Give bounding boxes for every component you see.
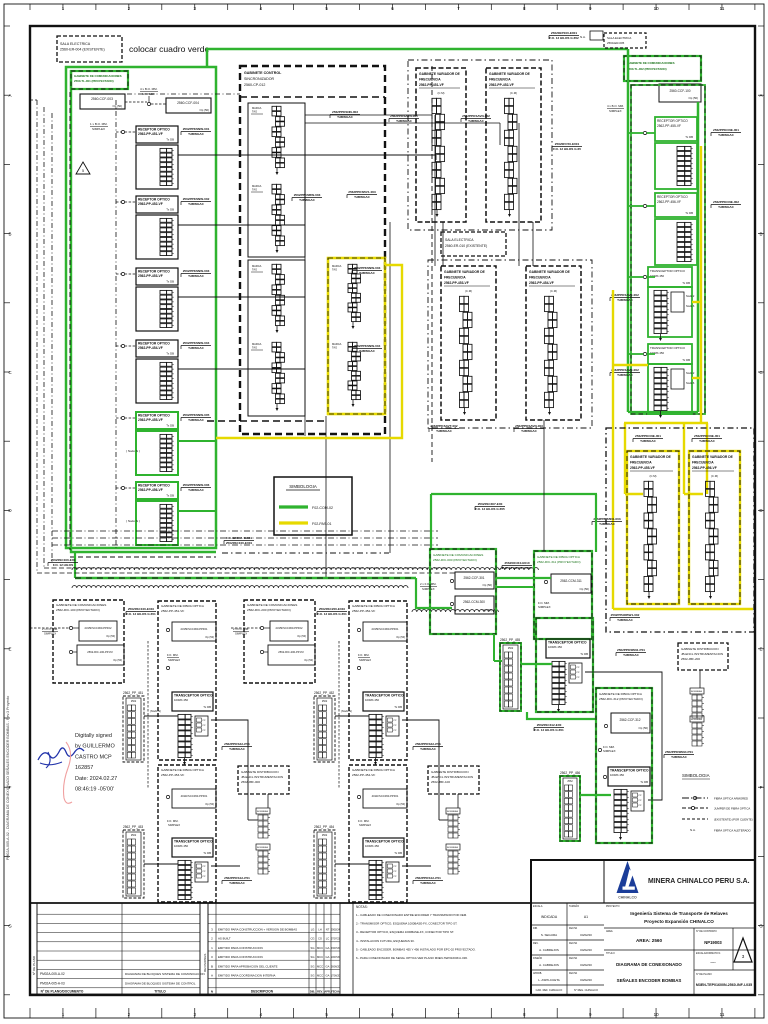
svg-text:3: 3 [742, 954, 745, 959]
svg-text:GABINETE DE COMUNICACIONES: GABINETE DE COMUNICACIONES [74, 74, 122, 78]
svg-text:DIAGRAMA DE CONEXIONADO: DIAGRAMA DE CONEXIONADO [616, 962, 682, 967]
svg-text:PM02A-005-A-02: PM02A-005-A-02 [40, 972, 65, 976]
svg-text:MCC: MCC [317, 974, 323, 978]
svg-text:SALA ELECTRICA: SALA ELECTRICA [60, 42, 91, 46]
svg-text:FRECUENCIA: FRECUENCIA [419, 78, 441, 82]
svg-text:2562-RIC-100 (PROYECTADO): 2562-RIC-100 (PROYECTADO) [56, 608, 100, 612]
svg-text:SG: SG [311, 964, 315, 968]
svg-text:Op (50): Op (50) [304, 658, 313, 662]
svg-text:2562PPKSBW-003: 2562PPKSBW-003 [294, 193, 321, 197]
svg-text:5: 5 [82, 169, 84, 173]
svg-text:2562: 2562 [322, 700, 328, 703]
svg-text:Nodo 2: Nodo 2 [686, 371, 695, 375]
svg-text:F: F [760, 785, 763, 790]
svg-text:DIAGRAMA DE BLOQUES SISTEMA DE: DIAGRAMA DE BLOQUES SISTEMA DE CONTROL [125, 982, 196, 986]
svg-text:N: N [211, 990, 213, 994]
svg-text:M3EN-TEP01600N-2560-INF-I-035: M3EN-TEP01600N-2560-INF-I-035 [696, 983, 752, 987]
svg-text:Nodo 2: Nodo 2 [686, 294, 695, 298]
svg-text:----: ---- [710, 959, 716, 964]
svg-text:N.A.: N.A. [690, 828, 696, 832]
svg-text:N° DE CONTRATO:: N° DE CONTRATO: [696, 930, 718, 933]
svg-text:TdBWGAC: TdBWGAC [521, 429, 538, 433]
svg-text:(C.M): (C.M) [438, 91, 445, 95]
svg-text:10/07/20: 10/07/20 [331, 957, 341, 959]
svg-text:GA: GA [326, 974, 330, 978]
svg-text:LC: LC [326, 937, 329, 941]
svg-text:RECEPTOR OPTICO: RECEPTOR OPTICO [657, 195, 688, 199]
svg-text:2315FSCC060-PPF02: 2315FSCC060-PPF02 [276, 626, 303, 630]
svg-text:26/06/20: 26/06/20 [331, 966, 341, 968]
svg-text:25620IC310-E010: 25620IC310-E010 [504, 561, 529, 565]
svg-text:MCC: MCC [317, 964, 323, 968]
svg-text:TdBWGAC: TdBWGAC [188, 132, 205, 136]
svg-text:E: E [8, 647, 11, 652]
svg-text:GABINETE DISTRIBUCION: GABINETE DISTRIBUCION [681, 647, 719, 651]
svg-text:F.O. 12 HILOS G.651: F.O. 12 HILOS G.651 [126, 612, 156, 616]
svg-text:FECHA: FECHA [331, 991, 340, 994]
svg-text:SALA ELECTRICA: SALA ELECTRICA [607, 36, 631, 40]
svg-text:GABINETE CONTROL: GABINETE CONTROL [244, 71, 282, 75]
svg-text:2562-RIC-200-PP-P2: 2562-RIC-200-PP-P2 [278, 650, 304, 654]
svg-text:GABINETE DE FIBRA OPTICA: GABINETE DE FIBRA OPTICA [161, 768, 205, 772]
svg-text:25620EP100-E001: 25620EP100-E001 [551, 31, 577, 35]
svg-text:FECHA: FECHA [569, 927, 578, 930]
svg-text:2562-PP-454-VF: 2562-PP-454-VF [352, 773, 375, 777]
svg-text:100Mb 450: 100Mb 450 [548, 645, 562, 649]
svg-text:2562-JBF-200: 2562-JBF-200 [681, 657, 700, 661]
svg-text:RECEPTOR OPTICO: RECEPTOR OPTICO [138, 128, 170, 132]
svg-text:B: B [8, 231, 11, 236]
svg-text:GA: GA [326, 946, 330, 950]
svg-text:F.O. 12 HILOS G.651: F.O. 12 HILOS G.651 [502, 566, 532, 570]
svg-text:TRANSCEPTOR OPTICO: TRANSCEPTOR OPTICO [650, 346, 686, 350]
svg-text:Op (50): Op (50) [200, 108, 210, 112]
svg-text:GABINETE DE COMUNICACIONES: GABINETE DE COMUNICACIONES [56, 603, 106, 607]
svg-text:S. SEGURA: S. SEGURA [541, 933, 557, 937]
svg-text:BORNERA: BORNERA [447, 810, 458, 813]
svg-text:2562-PP-452-VF: 2562-PP-452-VF [352, 609, 375, 613]
svg-text:2562-PP-454-VF: 2562-PP-454-VF [138, 346, 163, 350]
svg-text:2562: 2562 [508, 647, 514, 650]
svg-text:Tx DB: Tx DB [166, 424, 174, 428]
svg-text:GABINETE DE COMUNICACIONES: GABINETE DE COMUNICACIONES [247, 603, 297, 607]
svg-text:25620SC200-E010: 25620SC200-E010 [319, 607, 346, 611]
svg-text:FECHA: FECHA [569, 972, 578, 975]
svg-text:TdBWGAC: TdBWGAC [699, 439, 716, 443]
svg-text:SIMBOLOGIA: SIMBOLOGIA [289, 484, 317, 489]
svg-text:AREA:: AREA: [606, 930, 614, 933]
svg-text:TdBWGAC: TdBWGAC [718, 205, 735, 209]
svg-text:Op (50): Op (50) [689, 96, 699, 100]
svg-text:ESCALA/FORMATO N.: ESCALA/FORMATO N. [696, 952, 721, 955]
svg-text:GABINETE DISTRIBUCION: GABINETE DISTRIBUCION [241, 770, 279, 774]
svg-text:TdBWGAC: TdBWGAC [337, 115, 354, 119]
svg-text:2562-PP-451-VF: 2562-PP-451-VF [161, 609, 184, 613]
svg-text:2562PPKS4A-P01: 2562PPKS4A-P01 [415, 876, 441, 880]
svg-text:INDICADA: INDICADA [541, 915, 558, 919]
svg-text:SIMPLEX: SIMPLEX [92, 127, 105, 131]
svg-text:2562PPHOBW1-002: 2562PPHOBW1-002 [611, 613, 640, 617]
svg-text:TdBWGAC: TdBWGAC [396, 119, 413, 123]
svg-text:TAG: TAG [332, 346, 337, 350]
svg-text:4 x B.O. MM.: 4 x B.O. MM. [607, 104, 624, 108]
svg-text:2562_PP_452: 2562_PP_452 [314, 691, 334, 695]
svg-text:PM02A-005-A-03: PM02A-005-A-03 [40, 982, 65, 986]
svg-text:SIMPLEX: SIMPLEX [603, 749, 616, 753]
svg-text:2562PPKSAVN-003: 2562PPKSAVN-003 [515, 424, 543, 428]
svg-text:04/02/20: 04/02/20 [580, 963, 592, 967]
svg-text:Tx DB: Tx DB [640, 780, 648, 784]
svg-text:JB-ENCL INSTRUMENTACION: JB-ENCL INSTRUMENTACION [431, 775, 473, 779]
svg-text:AS BUILT: AS BUILT [218, 937, 231, 941]
svg-text:MCC: MCC [317, 946, 323, 950]
svg-text:BORNERA: BORNERA [691, 690, 702, 693]
svg-text:GABINETE VARIADOR DE: GABINETE VARIADOR DE [419, 72, 461, 76]
svg-text:APROB.: APROB. [533, 972, 542, 975]
svg-text:2560-TL-001 (PROYECTADO): 2560-TL-001 (PROYECTADO) [74, 79, 114, 83]
svg-text:TAG: TAG [252, 268, 257, 272]
svg-text:GA: GA [326, 955, 330, 959]
svg-text:27/07/23: 27/07/23 [331, 939, 341, 941]
svg-text:FRECUENCIA: FRECUENCIA [489, 78, 511, 82]
svg-text:GABINETE VARIADOR DE: GABINETE VARIADOR DE [444, 270, 486, 274]
svg-text:SG: SG [311, 955, 315, 959]
svg-text:2560-CCF-003: 2560-CCF-003 [91, 97, 113, 101]
svg-text:GA: GA [326, 964, 330, 968]
svg-text:F.O. MM.: F.O. MM. [167, 653, 179, 657]
svg-text:SG: SG [311, 946, 315, 950]
svg-text:MARCA: MARCA [252, 264, 262, 268]
svg-text:RECEPTOR OPTICO: RECEPTOR OPTICO [657, 119, 688, 123]
svg-text:2562_PP_455: 2562_PP_455 [500, 638, 520, 642]
svg-text:2562_PP_456: 2562_PP_456 [560, 771, 580, 775]
svg-text:2562PPKCNE-002: 2562PPKCNE-002 [713, 200, 739, 204]
svg-text:Op (50): Op (50) [483, 608, 493, 612]
svg-text:Tx DB: Tx DB [203, 705, 211, 709]
svg-text:2562PPKSAVE-002: 2562PPKSAVE-002 [611, 293, 639, 297]
svg-text:GABINETE DE FIBRA OPTICA: GABINETE DE FIBRA OPTICA [352, 768, 396, 772]
svg-text:EMITIDO PARA COORDINACION INTE: EMITIDO PARA COORDINACION INTERNA [218, 974, 276, 978]
svg-text:GABINETE DE COMUNICACIONES: GABINETE DE COMUNICACIONES [627, 61, 675, 65]
svg-text:TRANSCEPTOR OPTICO: TRANSCEPTOR OPTICO [610, 769, 649, 773]
svg-text:Op (50): Op (50) [106, 634, 115, 638]
svg-text:2562-RIC-000 (PROYECTADO): 2562-RIC-000 (PROYECTADO) [433, 558, 477, 562]
svg-text:2562PPKCNE-001: 2562PPKCNE-001 [713, 128, 739, 132]
svg-text:04/02/20: 04/02/20 [580, 948, 592, 952]
svg-text:4011FSCC060-PPF01: 4011FSCC060-PPF01 [181, 794, 208, 798]
svg-text:2562: 2562 [322, 834, 328, 837]
svg-text:2562PPKCNE-001: 2562PPKCNE-001 [694, 434, 720, 438]
svg-text:BORNERA: BORNERA [257, 810, 268, 813]
svg-text:(C.M): (C.M) [711, 474, 718, 478]
svg-text:TdBWGAC: TdBWGAC [229, 747, 246, 751]
svg-text:TdBWGAC: TdBWGAC [436, 429, 453, 433]
svg-text:2562PPKSNW-004: 2562PPKSNW-004 [354, 344, 381, 348]
svg-text:162857: 162857 [75, 765, 93, 771]
svg-text:APR.: APR. [324, 990, 330, 994]
svg-text:2562_PP_453: 2562_PP_453 [123, 825, 143, 829]
svg-text:TdBWGAC: TdBWGAC [671, 755, 688, 759]
svg-text:Op (50): Op (50) [580, 587, 590, 591]
svg-text:4.- INSTALACION FUTURA, ESQUE: 4.- INSTALACION FUTURA, ESQUEMAS 30. [356, 939, 415, 943]
svg-text:Op (50): Op (50) [297, 634, 306, 638]
svg-text:100Mb 450: 100Mb 450 [174, 698, 188, 702]
svg-text:2562PPKS3A-P01: 2562PPKS3A-P01 [224, 742, 250, 746]
svg-text:SINCRONIZADOR: SINCRONIZADOR [244, 77, 275, 81]
svg-text:2562-PP-453-VF: 2562-PP-453-VF [444, 281, 469, 285]
svg-text:TRANSCEPTOR OPTICO: TRANSCEPTOR OPTICO [174, 840, 213, 844]
svg-text:(EXISTENTE) (POR CLIENTE): (EXISTENTE) (POR CLIENTE) [714, 818, 753, 822]
svg-text:2562PPKS4A-P01: 2562PPKS4A-P01 [224, 876, 250, 880]
svg-text:Tx DB: Tx DB [394, 705, 402, 709]
svg-text:MARCA: MARCA [252, 342, 262, 346]
svg-text:11: 11 [720, 1012, 725, 1017]
svg-text:Tx DB: Tx DB [166, 352, 174, 356]
svg-text:F02-COM-02: F02-COM-02 [312, 506, 333, 510]
svg-text:N° REG. CHINALCO: N° REG. CHINALCO [574, 988, 598, 992]
svg-text:2560-ER-005: 2560-ER-005 [607, 41, 625, 45]
svg-text:EMITIDO PARA CONSTRUCCION: EMITIDO PARA CONSTRUCCION [218, 955, 263, 959]
svg-text:2562PPKSAVN-001: 2562PPKSAVN-001 [390, 114, 418, 118]
svg-text:2562PPKSAVE-002: 2562PPKSAVE-002 [611, 368, 639, 372]
svg-text:ESCALA: ESCALA [533, 905, 543, 908]
svg-text:2562-RIC-311 (PROYECTADO): 2562-RIC-311 (PROYECTADO) [537, 560, 581, 564]
svg-text:REV.: REV. [317, 990, 323, 994]
svg-text:2562-PP-453-VF: 2562-PP-453-VF [161, 773, 184, 777]
svg-text:Op (50): Op (50) [483, 583, 493, 587]
svg-text:GABINETE DE FIBRA OPTICA: GABINETE DE FIBRA OPTICA [599, 692, 643, 696]
svg-text:FRECUENCIA: FRECUENCIA [692, 461, 714, 465]
svg-text:BORNERA: BORNERA [691, 718, 702, 721]
svg-text:10: 10 [654, 1012, 660, 1017]
svg-text:2560-TL-002 (PROYECTADO): 2560-TL-002 (PROYECTADO) [627, 67, 667, 71]
svg-text:JB-ENCL INSTRUMENTACION: JB-ENCL INSTRUMENTACION [241, 775, 283, 779]
svg-text:RECEPTOR OPTICO: RECEPTOR OPTICO [138, 270, 170, 274]
svg-text:E: E [759, 647, 762, 652]
svg-text:DESCRIPCION: DESCRIPCION [251, 990, 274, 994]
svg-text:SIMPLEX: SIMPLEX [609, 109, 622, 113]
svg-text:CG: CG [310, 937, 314, 941]
svg-text:TRANSCEPTOR OPTICO: TRANSCEPTOR OPTICO [365, 694, 404, 698]
svg-text:TRANSCEPTOR OPTICO: TRANSCEPTOR OPTICO [650, 269, 686, 273]
svg-text:Tx DB: Tx DB [203, 851, 211, 855]
svg-text:PM02A-005-A-02 - DIAGRAMA DE: PM02A-005-A-02 - DIAGRAMA DE CONEXIONADO… [5, 696, 10, 860]
svg-text:CG: CG [318, 937, 322, 941]
svg-text:F02-PAS-01: F02-PAS-01 [312, 522, 332, 526]
svg-text:2562-JBF-100: 2562-JBF-100 [431, 780, 450, 784]
svg-text:MARCA: MARCA [252, 106, 262, 110]
svg-text:TAG: TAG [252, 188, 257, 192]
svg-text:AREA: 2560: AREA: 2560 [636, 938, 662, 943]
svg-text:MARCA: MARCA [252, 184, 262, 188]
svg-text:N° DE PLANO:: N° DE PLANO: [696, 973, 712, 976]
svg-text:TdBWGAC: TdBWGAC [623, 653, 640, 657]
svg-text:2562-PP-456-VF: 2562-PP-456-VF [138, 488, 163, 492]
svg-text:N° DE PLANO/DOCUMENTO: N° DE PLANO/DOCUMENTO [41, 990, 84, 994]
svg-text:TdBWGAC: TdBWGAC [188, 202, 205, 206]
svg-text:TdBWGAC: TdBWGAC [188, 488, 205, 492]
svg-text:REV.: REV. [533, 942, 539, 945]
svg-text:2562-JBF-000: 2562-JBF-000 [241, 780, 260, 784]
svg-text:04/02/20: 04/02/20 [580, 933, 592, 937]
svg-text:TAG: TAG [252, 346, 257, 350]
svg-text:MINERA CHINALCO PERU S.A.: MINERA CHINALCO PERU S.A. [648, 878, 750, 885]
svg-text:TdBWGAC: TdBWGAC [420, 881, 437, 885]
svg-text:2562-CCM-300: 2562-CCM-300 [463, 600, 485, 604]
svg-text:A: A [8, 93, 11, 98]
svg-text:4 x B.O. MM.: 4 x B.O. MM. [140, 87, 158, 91]
svg-text:2562PPKSNW-002: 2562PPKSNW-002 [183, 197, 210, 201]
svg-text:CAD. REF. CHINALCO: CAD. REF. CHINALCO [536, 988, 563, 992]
svg-text:FRECUENCIA: FRECUENCIA [529, 276, 551, 280]
svg-text:2 x F.O. MM.: 2 x F.O. MM. [233, 627, 249, 631]
svg-text:Tx DB: Tx DB [394, 851, 402, 855]
svg-text:LG: LG [311, 928, 315, 932]
svg-text:MARCA: MARCA [332, 264, 342, 268]
svg-text:2562-PP-456-VF: 2562-PP-456-VF [692, 466, 717, 470]
svg-text:2315FSCC060-PPF01: 2315FSCC060-PPF01 [372, 627, 399, 631]
svg-text:2562PPKSNN-003: 2562PPKSNN-003 [332, 110, 358, 114]
svg-text:JUMPER DE FIBRA OPTICA: JUMPER DE FIBRA OPTICA [714, 807, 750, 811]
svg-text:2562-PP-451-VF: 2562-PP-451-VF [419, 83, 444, 87]
svg-text:2.- TRANSMISOR OPTICO, ESQUEM: 2.- TRANSMISOR OPTICO, ESQUEMA 1000BASE-… [356, 922, 458, 926]
svg-text:GABINETE DE COMUNICACIONES: GABINETE DE COMUNICACIONES [433, 553, 483, 557]
svg-text:Op (50): Op (50) [396, 635, 405, 639]
svg-text:TdBWGAC: TdBWGAC [718, 133, 735, 137]
svg-text:TRANSCEPTOR OPTICO: TRANSCEPTOR OPTICO [174, 694, 213, 698]
svg-text:Tx DB: Tx DB [682, 281, 690, 285]
svg-text:2562-PP-455-VF: 2562-PP-455-VF [657, 124, 681, 128]
svg-text:FRECUENCIA: FRECUENCIA [444, 276, 466, 280]
svg-text:CHINALCO: CHINALCO [618, 896, 637, 900]
svg-text:SIMPLEX: SIMPLEX [168, 823, 180, 827]
svg-text:RECEPTOR OPTICO: RECEPTOR OPTICO [138, 484, 170, 488]
svg-text:TdBWGAC: TdBWGAC [617, 618, 634, 622]
svg-text:2562-RIC-200 (PROYECTADO): 2562-RIC-200 (PROYECTADO) [247, 608, 291, 612]
svg-text:2562: 2562 [567, 780, 573, 783]
svg-text:TITULO:: TITULO: [606, 952, 616, 955]
svg-text:RECEPTOR OPTICO: RECEPTOR OPTICO [138, 414, 170, 418]
svg-text:2562-PP-452-VF: 2562-PP-452-VF [489, 83, 514, 87]
svg-text:Digitally signed: Digitally signed [75, 733, 112, 739]
svg-text:F.O. 12 HILOS G.65: F.O. 12 HILOS G.65 [553, 147, 581, 151]
svg-text:DIB.: DIB. [310, 990, 315, 994]
svg-text:Tx DB: Tx DB [580, 652, 588, 656]
svg-text:1.- CABLEADO DE CONEXIONADO E: 1.- CABLEADO DE CONEXIONADO ENTRE ENCODE… [356, 913, 467, 917]
svg-text:TAMAÑO: TAMAÑO [569, 905, 579, 908]
svg-text:2562-CCM-311: 2562-CCM-311 [560, 579, 582, 583]
svg-text:2562-RIC-100-PP-P2: 2562-RIC-100-PP-P2 [87, 650, 113, 654]
svg-text:SIMBOLOGIA: SIMBOLOGIA [682, 773, 710, 778]
svg-text:2562-PP-452-VF: 2562-PP-452-VF [138, 202, 163, 206]
svg-text:Nodo 6: Nodo 6 [686, 304, 695, 308]
svg-text:2562PPKSBV1-003: 2562PPKSBV1-003 [348, 190, 376, 194]
svg-text:GABINETE DE FIBRA OPTICA: GABINETE DE FIBRA OPTICA [537, 555, 581, 559]
svg-text:Tx DB: Tx DB [166, 280, 174, 284]
svg-text:A. CABREJOS: A. CABREJOS [539, 948, 559, 952]
svg-text:GABINETE VARIADOR DE: GABINETE VARIADOR DE [489, 72, 531, 76]
svg-text:2562PPKSNW-006: 2562PPKSNW-006 [183, 483, 210, 487]
svg-text:2562PPKSNW-003: 2562PPKSNW-003 [183, 269, 210, 273]
svg-text:Nodo 6: Nodo 6 [686, 381, 695, 385]
svg-text:B: B [211, 964, 213, 968]
svg-text:TRANSCEPTOR OPTICO: TRANSCEPTOR OPTICO [548, 641, 587, 645]
svg-text:2562_PP_451: 2562_PP_451 [123, 691, 143, 695]
svg-text:REVISIONES: REVISIONES [203, 954, 207, 972]
svg-text:( Nodo N ): ( Nodo N ) [126, 519, 140, 523]
svg-text:2562PPKSBN1-P01: 2562PPKSBN1-P01 [617, 648, 645, 652]
svg-text:(C.M): (C.M) [465, 289, 472, 293]
svg-text:2562-RIC-312 (PROYECTADO): 2562-RIC-312 (PROYECTADO) [599, 697, 643, 701]
svg-text:2562_PP_454: 2562_PP_454 [314, 825, 334, 829]
svg-text:25620SC100-E010: 25620SC100-E010 [128, 607, 155, 611]
svg-text:NP19003: NP19003 [704, 940, 722, 945]
svg-text:TdBWGAC: TdBWGAC [229, 881, 246, 885]
svg-text:5.- CABLEADO ENCODER, BOMBAS: 5.- CABLEADO ENCODER, BOMBAS 455 Y 456 I… [356, 947, 476, 951]
svg-text:2560-ER-010 (EXISTENTE): 2560-ER-010 (EXISTENTE) [445, 244, 487, 248]
svg-text:Tx DB: Tx DB [166, 208, 174, 212]
svg-text:A: A [759, 93, 762, 98]
svg-text:SIMPLEX: SIMPLEX [235, 632, 247, 636]
svg-text:colocar cuadro verde: colocar cuadro verde [129, 44, 209, 54]
svg-text:GABINETE DE FIBRA OPTICA: GABINETE DE FIBRA OPTICA [161, 604, 205, 608]
svg-text:3.- RECEPTOR OPTICO, ESQUEMA: 3.- RECEPTOR OPTICO, ESQUEMA 1000BASE-FX… [356, 930, 454, 934]
svg-text:2560-ER-004 (EXISTENTE): 2560-ER-004 (EXISTENTE) [60, 48, 105, 52]
svg-text:SIMPLEX: SIMPLEX [168, 658, 180, 662]
svg-text:SIMPLEX: SIMPLEX [359, 823, 371, 827]
svg-text:Op (50): Op (50) [205, 802, 214, 806]
svg-text:FIBRA OPTICA ARMORED: FIBRA OPTICA ARMORED [714, 797, 748, 801]
svg-text:F.O. 12 HILOS: F.O. 12 HILOS [53, 563, 73, 567]
svg-text:2562PPKS5N1-003: 2562PPKS5N1-003 [593, 517, 620, 521]
svg-text:Op (50): Op (50) [639, 726, 649, 730]
svg-text:Op (50): Op (50) [396, 802, 405, 806]
svg-text:F.O. 12 HILOS G.652: F.O. 12 HILOS G.652 [549, 36, 579, 40]
svg-text:(C.M): (C.M) [550, 289, 557, 293]
svg-text:DISEÑO: DISEÑO [533, 957, 542, 960]
svg-text:100Mb 450: 100Mb 450 [174, 844, 188, 848]
svg-text:TdBWGAC: TdBWGAC [188, 274, 205, 278]
svg-text:( Nodo N ): ( Nodo N ) [126, 449, 140, 453]
svg-text:BORNERA: BORNERA [257, 846, 268, 849]
svg-text:SALA ELECTRICA: SALA ELECTRICA [445, 238, 474, 242]
svg-text:NOTAS:: NOTAS: [356, 905, 368, 909]
svg-text:TdBWGAC: TdBWGAC [359, 349, 376, 353]
svg-text:EMITIDO PARA CONSTRUCCION: EMITIDO PARA CONSTRUCCION [218, 946, 263, 950]
svg-text:DIB.: DIB. [533, 927, 538, 930]
svg-text:TdBWGAC: TdBWGAC [617, 373, 634, 377]
svg-text:TdBWGAC: TdBWGAC [359, 271, 376, 275]
svg-text:2562PPKSBN4-P01: 2562PPKSBN4-P01 [665, 750, 693, 754]
svg-text:2562: 2562 [131, 700, 137, 703]
svg-text:(C.M): (C.M) [650, 474, 657, 478]
svg-text:Tx DB: Tx DB [685, 211, 693, 215]
svg-text:2562-PP-451-VF: 2562-PP-451-VF [138, 132, 163, 136]
svg-text:F.O. 12 HILOS G.651: F.O. 12 HILOS G.651 [534, 728, 564, 732]
svg-text:EMITIDO PARA APROBACION DEL CL: EMITIDO PARA APROBACION DEL CLIENTE [218, 964, 278, 968]
svg-text:MARCA: MARCA [332, 342, 342, 346]
svg-text:TRANSCEPTOR OPTICO: TRANSCEPTOR OPTICO [365, 840, 404, 844]
svg-text:2562PPKS3A-P01: 2562PPKS3A-P01 [415, 742, 441, 746]
svg-text:2315FSCC060-PPF02: 2315FSCC060-PPF02 [85, 626, 112, 630]
svg-text:G: G [8, 923, 12, 928]
svg-text:(Nodo N): (Nodo N) [341, 709, 352, 713]
svg-text:Op (50): Op (50) [205, 635, 214, 639]
svg-text:GABINETE DE FIBRA OPTICA: GABINETE DE FIBRA OPTICA [352, 604, 396, 608]
svg-text:25620SC100-E00: 25620SC100-E00 [51, 558, 76, 562]
svg-text:Date: 2024.02.27: Date: 2024.02.27 [75, 776, 117, 782]
svg-text:2562-PP-456-VF: 2562-PP-456-VF [657, 200, 681, 204]
